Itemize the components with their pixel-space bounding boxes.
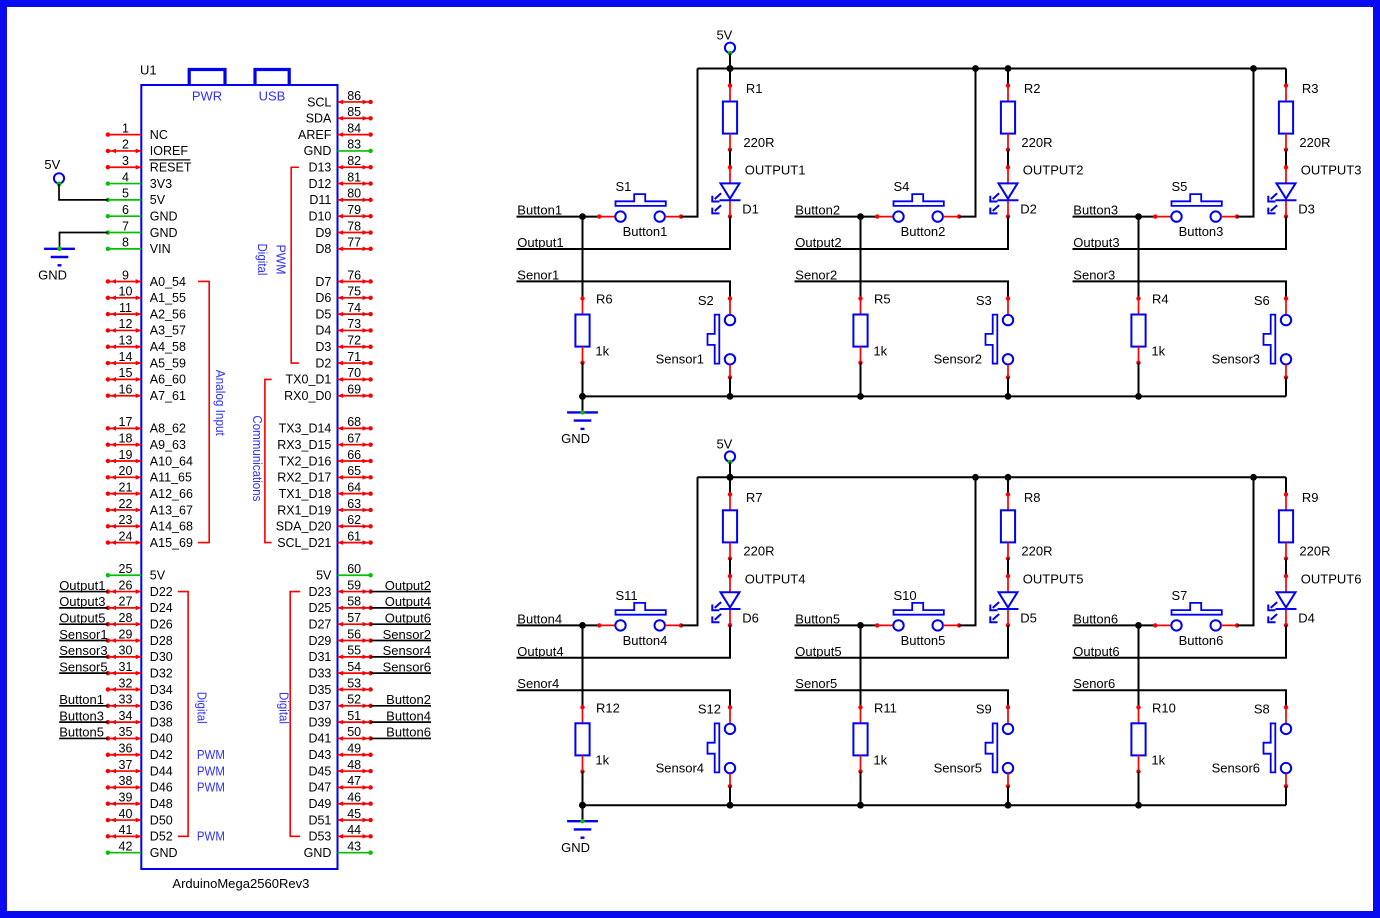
switch S11 (push button) xyxy=(597,588,683,648)
svg-text:Senor1: Senor1 xyxy=(517,267,559,282)
bracket Digital D22-D52 left xyxy=(178,592,188,837)
pin 81 D12 xyxy=(308,170,372,191)
svg-text:TX2_D16: TX2_D16 xyxy=(279,454,332,468)
wire Senor4 row xyxy=(517,690,731,707)
pin 45 D51 xyxy=(308,807,372,828)
svg-text:D49: D49 xyxy=(308,797,331,811)
svg-text:D47: D47 xyxy=(308,781,331,795)
svg-text:D22: D22 xyxy=(150,585,173,599)
svg-text:D10: D10 xyxy=(308,210,331,224)
LED D2 xyxy=(990,165,1037,218)
svg-text:Output1: Output1 xyxy=(517,235,563,250)
svg-text:20: 20 xyxy=(119,464,133,478)
svg-text:5V: 5V xyxy=(316,569,332,583)
svg-text:43: 43 xyxy=(347,839,361,853)
svg-text:D43: D43 xyxy=(308,748,331,762)
svg-text:Output2: Output2 xyxy=(795,235,841,250)
switch S10 (push button) xyxy=(875,588,961,648)
svg-text:D29: D29 xyxy=(308,634,331,648)
power 5V supply (block at y 68) xyxy=(716,28,735,56)
net label Output1 (pin 26) xyxy=(59,591,108,593)
svg-text:3V3: 3V3 xyxy=(150,177,172,191)
pin 1 NC xyxy=(106,121,168,142)
net label Output2 (pin 59) xyxy=(371,591,431,593)
svg-text:R9: R9 xyxy=(1302,490,1319,505)
resistor R6 xyxy=(575,292,612,365)
wire R7 to D6 xyxy=(729,559,731,577)
svg-text:21: 21 xyxy=(119,480,133,494)
pin 80 D11 xyxy=(309,187,372,208)
svg-text:D5: D5 xyxy=(1020,610,1037,625)
svg-text:Output1: Output1 xyxy=(59,578,105,593)
net label Button4 (pin 51) xyxy=(371,721,431,723)
svg-text:D32: D32 xyxy=(150,666,173,680)
pin 24 A15_69 xyxy=(106,529,193,550)
svg-text:PWM: PWM xyxy=(197,748,225,762)
svg-text:R2: R2 xyxy=(1024,81,1041,96)
svg-text:A1_55: A1_55 xyxy=(150,291,186,305)
pin 19 A10_64 xyxy=(106,448,193,469)
wire Senor5 row xyxy=(795,690,1009,707)
pin 70 TX0_D1 xyxy=(286,366,373,387)
svg-text:D44: D44 xyxy=(150,764,173,778)
svg-text:28: 28 xyxy=(119,611,133,625)
svg-text:D23: D23 xyxy=(308,585,331,599)
junction bus / resistor R7 xyxy=(727,474,734,481)
wire R5 to GND bus xyxy=(860,363,862,397)
svg-text:AREF: AREF xyxy=(298,128,332,142)
svg-text:Analog Input: Analog Input xyxy=(213,370,227,436)
pin 32 D34 xyxy=(106,676,173,697)
junction bus / 5V xyxy=(727,474,734,481)
svg-text:D26: D26 xyxy=(150,618,173,632)
wire pin 7 to GND xyxy=(60,233,108,249)
svg-text:SCL: SCL xyxy=(307,95,331,109)
svg-text:52: 52 xyxy=(347,693,361,707)
svg-text:9: 9 xyxy=(122,268,129,282)
junction bus / riser cell 2 xyxy=(972,65,979,72)
svg-text:A5_59: A5_59 xyxy=(150,356,186,370)
svg-text:14: 14 xyxy=(119,350,133,364)
pin 16 A7_61 xyxy=(106,383,186,404)
svg-text:1k: 1k xyxy=(873,752,887,767)
svg-text:A2_56: A2_56 xyxy=(150,307,186,321)
svg-text:D13: D13 xyxy=(308,161,331,175)
pin 29 D28 xyxy=(59,627,173,648)
junction GND bus / R6 xyxy=(579,393,586,400)
pin 9 A0_54 xyxy=(106,268,186,289)
svg-text:22: 22 xyxy=(119,497,133,511)
svg-text:69: 69 xyxy=(347,383,361,397)
pin 17 A8_62 xyxy=(106,415,186,436)
svg-text:77: 77 xyxy=(347,236,361,250)
pin 85 SDA xyxy=(306,105,373,126)
pin 43 GND xyxy=(304,839,373,860)
svg-text:Output4: Output4 xyxy=(517,644,563,659)
wire R6 to GND bus xyxy=(582,363,584,397)
svg-text:24: 24 xyxy=(119,529,133,543)
svg-text:Sensor4: Sensor4 xyxy=(656,760,704,775)
svg-text:45: 45 xyxy=(347,807,361,821)
svg-text:S5: S5 xyxy=(1172,179,1188,194)
junction button/R10 xyxy=(1135,622,1142,629)
svg-text:OUTPUT1: OUTPUT1 xyxy=(745,163,806,178)
switch S1 (push button) xyxy=(597,179,683,239)
svg-text:Sensor6: Sensor6 xyxy=(383,659,431,674)
resistor R4 xyxy=(1131,292,1168,365)
pin 60 5V xyxy=(316,562,373,583)
svg-text:Senor4: Senor4 xyxy=(517,676,559,691)
wire R3 to D3 xyxy=(1285,150,1287,168)
pin 47 D47 xyxy=(308,774,372,795)
svg-text:Sensor3: Sensor3 xyxy=(1212,352,1260,367)
svg-text:86: 86 xyxy=(347,89,361,103)
svg-text:70: 70 xyxy=(347,366,361,380)
svg-text:51: 51 xyxy=(347,709,361,723)
svg-text:R6: R6 xyxy=(596,292,613,307)
svg-text:73: 73 xyxy=(347,317,361,331)
svg-text:5: 5 xyxy=(122,187,129,201)
svg-text:56: 56 xyxy=(347,627,361,641)
svg-text:12: 12 xyxy=(119,317,133,331)
svg-text:Button4: Button4 xyxy=(517,611,562,626)
svg-text:29: 29 xyxy=(119,627,133,641)
wire D3 to output row xyxy=(1073,216,1287,249)
svg-text:81: 81 xyxy=(347,170,361,184)
wire 5V bus xyxy=(698,476,1287,478)
pin 62 SDA_D20 xyxy=(276,513,373,534)
svg-text:D2: D2 xyxy=(1020,202,1037,217)
svg-text:D37: D37 xyxy=(308,699,331,713)
wire bus to R3 xyxy=(1285,69,1287,86)
svg-text:D42: D42 xyxy=(150,748,173,762)
svg-text:44: 44 xyxy=(347,823,361,837)
wire Senor1 row xyxy=(517,281,731,298)
junction bus / riser cell 3 xyxy=(1250,474,1257,481)
svg-text:220R: 220R xyxy=(1299,544,1330,559)
wire junction to R5 xyxy=(860,217,862,299)
svg-text:S8: S8 xyxy=(1254,702,1270,717)
net label Button3 (pin 34) xyxy=(59,721,108,723)
svg-text:S3: S3 xyxy=(976,293,992,308)
pin 33 D36 xyxy=(59,692,173,713)
bracket Analog Input pins 9-24 xyxy=(198,281,209,542)
svg-text:Button4: Button4 xyxy=(623,633,668,648)
svg-text:A9_63: A9_63 xyxy=(150,438,186,452)
wire junction to R12 xyxy=(582,625,584,707)
svg-text:67: 67 xyxy=(347,431,361,445)
net label Output3 (pin 27) xyxy=(59,607,108,609)
svg-text:5V: 5V xyxy=(150,569,166,583)
svg-text:S12: S12 xyxy=(698,702,721,717)
svg-text:42: 42 xyxy=(119,839,133,853)
wire switch S5 to 5V riser xyxy=(1237,69,1254,217)
svg-text:59: 59 xyxy=(347,578,361,592)
svg-text:Output6: Output6 xyxy=(1073,644,1119,659)
svg-text:Sensor2: Sensor2 xyxy=(934,352,982,367)
junction GND bus / R4 xyxy=(1135,393,1142,400)
pin 6 GND xyxy=(106,203,178,224)
svg-text:D8: D8 xyxy=(315,242,331,256)
svg-text:A12_66: A12_66 xyxy=(150,487,193,501)
pin 38 D46 xyxy=(106,774,173,795)
LED D6 xyxy=(712,574,759,628)
wire switch S10 to 5V riser xyxy=(959,477,976,625)
svg-text:Button3: Button3 xyxy=(1179,224,1224,239)
net label Sensor2 (pin 56) xyxy=(371,640,431,642)
svg-text:D9: D9 xyxy=(315,226,331,240)
ground GND symbol xyxy=(561,802,598,855)
svg-text:57: 57 xyxy=(347,611,361,625)
pin 84 AREF xyxy=(298,121,373,142)
svg-text:Senor2: Senor2 xyxy=(795,267,837,282)
pin 3 RESET xyxy=(106,154,192,175)
svg-text:40: 40 xyxy=(119,807,133,821)
pin 2 IOREF xyxy=(106,138,189,159)
junction GND bus / R11 xyxy=(857,802,864,809)
junction bus / riser cell 3 xyxy=(1250,65,1257,72)
switch S3 (sensor) xyxy=(934,293,1014,380)
svg-text:RX1_D19: RX1_D19 xyxy=(277,503,331,517)
junction GND bus / S9 xyxy=(1005,802,1012,809)
svg-text:220R: 220R xyxy=(743,544,774,559)
svg-text:38: 38 xyxy=(119,774,133,788)
pin 49 D43 xyxy=(308,742,372,763)
svg-text:63: 63 xyxy=(347,497,361,511)
svg-text:1k: 1k xyxy=(595,752,609,767)
pin 30 D30 xyxy=(59,643,173,664)
svg-text:Button3: Button3 xyxy=(1073,203,1118,218)
svg-text:66: 66 xyxy=(347,448,361,462)
IC U1 ArduinoMega2560Rev3 body xyxy=(141,85,337,869)
svg-text:60: 60 xyxy=(347,562,361,576)
svg-text:34: 34 xyxy=(119,709,133,723)
svg-text:Button6: Button6 xyxy=(1073,611,1118,626)
svg-text:S10: S10 xyxy=(894,588,917,603)
pin 83 GND xyxy=(304,138,373,159)
svg-text:TX1_D18: TX1_D18 xyxy=(279,487,332,501)
wire switch S1 to 5V riser xyxy=(681,69,698,217)
svg-text:R7: R7 xyxy=(746,490,763,505)
svg-text:GND: GND xyxy=(304,846,332,860)
svg-text:220R: 220R xyxy=(1021,544,1052,559)
svg-text:1k: 1k xyxy=(1151,752,1165,767)
svg-text:D41: D41 xyxy=(308,732,331,746)
pin 56 D29 xyxy=(308,627,431,648)
svg-text:Output6: Output6 xyxy=(385,611,431,626)
junction GND bus / S3 xyxy=(1005,393,1012,400)
pin 50 D41 xyxy=(308,725,431,746)
pin 21 A12_66 xyxy=(106,480,193,501)
svg-text:S6: S6 xyxy=(1254,293,1270,308)
junction GND bus / S2 xyxy=(727,393,734,400)
svg-text:Button1: Button1 xyxy=(59,692,104,707)
svg-text:5V: 5V xyxy=(150,193,166,207)
net label Output5 (pin 28) xyxy=(59,623,108,625)
USB connector tab xyxy=(255,70,289,86)
svg-text:D36: D36 xyxy=(150,699,173,713)
pin 66 TX2_D16 xyxy=(279,448,373,469)
svg-text:PWM: PWM xyxy=(197,830,225,844)
pin 51 D39 xyxy=(308,708,431,729)
svg-text:S2: S2 xyxy=(698,293,714,308)
svg-text:50: 50 xyxy=(347,725,361,739)
resistor R7 xyxy=(723,490,775,561)
wire S9 to GND bus xyxy=(1007,786,1009,805)
svg-text:GND: GND xyxy=(561,840,590,855)
wire junction to switch S4 xyxy=(861,216,878,218)
wire junction to R4 xyxy=(1138,217,1140,299)
svg-text:SCL_D21: SCL_D21 xyxy=(277,536,331,550)
svg-text:80: 80 xyxy=(347,187,361,201)
wire Button5 to junction xyxy=(795,624,861,626)
svg-text:R4: R4 xyxy=(1152,292,1169,307)
pin 20 A11_65 xyxy=(106,464,192,485)
svg-text:D38: D38 xyxy=(150,715,173,729)
svg-text:39: 39 xyxy=(119,791,133,805)
svg-text:D48: D48 xyxy=(150,797,173,811)
svg-text:Output2: Output2 xyxy=(385,578,431,593)
pin 28 D26 xyxy=(59,611,173,632)
wire Senor2 row xyxy=(795,281,1009,298)
resistor R2 xyxy=(1001,81,1053,152)
pin 34 D38 xyxy=(59,708,173,729)
wire junction to switch S5 xyxy=(1139,216,1156,218)
resistor R9 xyxy=(1279,490,1331,561)
svg-text:R10: R10 xyxy=(1152,700,1176,715)
pin 58 D25 xyxy=(308,594,431,615)
svg-text:OUTPUT2: OUTPUT2 xyxy=(1023,163,1084,178)
pin 10 A1_55 xyxy=(106,285,186,306)
pin 55 D31 xyxy=(308,643,431,664)
svg-text:D40: D40 xyxy=(150,732,173,746)
svg-text:54: 54 xyxy=(347,660,361,674)
svg-text:D3: D3 xyxy=(315,340,331,354)
svg-text:RX3_D15: RX3_D15 xyxy=(277,438,331,452)
svg-text:PWM: PWM xyxy=(197,781,225,795)
pin 37 D44 xyxy=(106,758,173,779)
svg-text:1k: 1k xyxy=(873,344,887,359)
svg-text:72: 72 xyxy=(347,334,361,348)
svg-text:D50: D50 xyxy=(150,813,173,827)
svg-text:GND: GND xyxy=(150,226,178,240)
svg-text:Button3: Button3 xyxy=(59,708,104,723)
junction GND bus / S12 xyxy=(727,802,734,809)
junction button/R5 xyxy=(857,213,864,220)
svg-text:S11: S11 xyxy=(616,588,638,603)
LED D4 xyxy=(1268,574,1315,628)
LED D3 xyxy=(1268,165,1315,218)
svg-text:Senor3: Senor3 xyxy=(1073,267,1115,282)
svg-text:Button2: Button2 xyxy=(386,692,431,707)
junction button/R12 xyxy=(579,622,586,629)
wire junction to R6 xyxy=(582,217,584,299)
wire R12 to GND bus xyxy=(582,772,584,806)
wire D5 to output row xyxy=(795,625,1009,658)
wire Button2 to junction xyxy=(795,216,861,218)
wire Senor6 row xyxy=(1073,690,1287,707)
svg-text:Button6: Button6 xyxy=(386,725,431,740)
pin 5 5V xyxy=(106,187,166,208)
svg-text:R3: R3 xyxy=(1302,81,1319,96)
pin 76 D7 xyxy=(315,268,372,289)
svg-text:23: 23 xyxy=(119,513,133,527)
svg-text:S4: S4 xyxy=(894,179,910,194)
pin 71 D2 xyxy=(315,350,372,371)
junction button/R6 xyxy=(579,213,586,220)
svg-text:61: 61 xyxy=(347,529,361,543)
pin 18 A9_63 xyxy=(106,431,186,452)
pin 63 RX1_D19 xyxy=(277,497,373,518)
wire R9 to D4 xyxy=(1285,559,1287,577)
wire R8 to D5 xyxy=(1007,559,1009,577)
bracket Digital D23-D53 right xyxy=(290,592,300,837)
net label Button5 (pin 35) xyxy=(59,737,108,739)
pin 52 D37 xyxy=(308,692,431,713)
net label Sensor5 (pin 31) xyxy=(59,672,108,674)
pin 57 D27 xyxy=(308,611,431,632)
wire Button4 to junction xyxy=(517,624,583,626)
wire GND bus xyxy=(583,804,1287,806)
wire 5V to pin 5 xyxy=(59,184,108,200)
svg-text:D35: D35 xyxy=(308,683,331,697)
pin 23 A14_68 xyxy=(106,513,193,534)
svg-text:Sensor5: Sensor5 xyxy=(934,760,982,775)
junction GND bus / R10 xyxy=(1135,802,1142,809)
svg-text:19: 19 xyxy=(119,448,133,462)
svg-text:GND: GND xyxy=(150,210,178,224)
net label Output4 (pin 58) xyxy=(371,607,431,609)
pin 41 D52 xyxy=(106,823,173,844)
wire D2 to output row xyxy=(795,216,1009,249)
power 5V supply (left) xyxy=(44,157,64,186)
svg-text:37: 37 xyxy=(119,758,133,772)
wire S12 to GND bus xyxy=(729,786,731,805)
svg-text:PWM: PWM xyxy=(197,764,225,778)
svg-text:RX2_D17: RX2_D17 xyxy=(277,471,331,485)
svg-text:Button5: Button5 xyxy=(59,725,104,740)
junction bus / resistor R1 xyxy=(727,65,734,72)
svg-text:30: 30 xyxy=(119,644,133,658)
pin 74 D5 xyxy=(315,301,372,322)
wire S8 to GND bus xyxy=(1285,786,1287,805)
svg-text:Senor5: Senor5 xyxy=(795,676,837,691)
wire bus to R2 xyxy=(1007,69,1009,86)
svg-text:Digital: Digital xyxy=(277,692,291,724)
svg-text:68: 68 xyxy=(347,415,361,429)
svg-text:D27: D27 xyxy=(308,618,331,632)
svg-text:A14_68: A14_68 xyxy=(150,520,193,534)
svg-text:18: 18 xyxy=(119,431,133,445)
wire D4 to output row xyxy=(1073,625,1287,658)
switch S2 (sensor) xyxy=(656,293,736,380)
net label Button1 (pin 33) xyxy=(59,705,108,707)
svg-text:Digital: Digital xyxy=(255,244,269,276)
wire bus to R8 xyxy=(1007,477,1009,494)
pin 82 D13 xyxy=(308,154,372,175)
svg-text:D46: D46 xyxy=(150,781,173,795)
net label Output6 (pin 57) xyxy=(371,623,431,625)
svg-text:D45: D45 xyxy=(308,764,331,778)
wire bus to R9 xyxy=(1285,477,1287,494)
svg-text:A10_64: A10_64 xyxy=(150,454,193,468)
PWR connector tab xyxy=(189,70,225,86)
svg-text:S7: S7 xyxy=(1172,588,1188,603)
wire 5V to bus xyxy=(729,53,731,68)
svg-text:D7: D7 xyxy=(315,275,331,289)
svg-text:D1: D1 xyxy=(742,202,759,217)
svg-text:D4: D4 xyxy=(1298,610,1315,625)
